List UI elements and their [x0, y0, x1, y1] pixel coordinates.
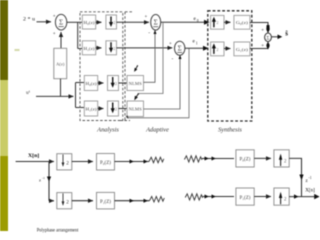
wire D2 to P1: [72, 200, 93, 202]
bullet dash: [15, 49, 20, 51]
wire NLMS1 out to sum1: [144, 33, 156, 83]
wire row3 H to D2: [98, 82, 104, 84]
wire delay branch: [48, 162, 50, 201]
filter P0 left: [97, 154, 115, 171]
svg-text:Σ: Σ: [59, 18, 63, 26]
adapt arrow NLMS1: [134, 65, 138, 72]
wire row2 H to D2: [96, 47, 102, 49]
wire row4 to NLMS2: [119, 108, 128, 110]
svg-text:2: 2: [66, 161, 69, 167]
wire channel to P0 right: [202, 158, 234, 160]
svg-text:2: 2: [113, 46, 115, 51]
wire U2 to G1: [224, 48, 231, 50]
wire branch to D2 row2: [49, 200, 54, 202]
op sum2 circle: [175, 41, 185, 55]
channel squiggle left row1: [149, 157, 164, 163]
downsample D2 row3: [108, 76, 119, 91]
svg-text:+: +: [145, 15, 148, 20]
svg-text:-1: -1: [42, 176, 45, 180]
wire e0 feedback: [138, 23, 164, 94]
wire U2 row1 down: [289, 158, 301, 196]
sidebar dark olive segment: [0, 0, 8, 80]
svg-text:2: 2: [66, 199, 69, 205]
wire row3 to NLMS1: [119, 82, 128, 84]
adaptive filter NLMS2: [127, 101, 144, 117]
wire row2 to sum2: [117, 47, 173, 49]
svg-text:P₁(Z): P₁(Z): [240, 196, 251, 201]
wire A(z) to sum A: [60, 32, 62, 48]
wire G1 to sum3: [250, 47, 268, 49]
wire P0 to U2 right: [254, 157, 271, 159]
op sum3 circle: [265, 33, 272, 42]
wire row4 H to D2: [98, 108, 104, 110]
filter P0 right: [236, 150, 254, 167]
channel squiggle right row2: [185, 194, 203, 200]
svg-text:2: 2: [113, 20, 115, 25]
svg-text:X[n]: X[n]: [28, 153, 39, 159]
adapt arrow NLMS2: [134, 93, 139, 100]
svg-text:2: 2: [216, 20, 218, 25]
svg-text:H₀(z): H₀(z): [84, 20, 96, 25]
svg-text:2: 2: [115, 107, 117, 112]
svg-text:-1: -1: [309, 176, 312, 180]
svg-text:P₁(Z): P₁(Z): [100, 200, 111, 205]
svg-text:1: 1: [196, 41, 198, 45]
svg-text:u¹: u¹: [26, 90, 31, 96]
wire bottom input: [36, 95, 74, 97]
synthesis dashed box: [208, 11, 252, 121]
svg-text:+: +: [53, 15, 56, 20]
wire split upper: [77, 22, 79, 48]
downsample D2 row2: [106, 41, 117, 55]
svg-text:Polyphase arrangement: Polyphase arrangement: [37, 228, 79, 234]
adaptive filter NLMS1: [127, 76, 144, 91]
wire channel to P1 right: [203, 196, 234, 198]
svg-text:H₁(z): H₁(z): [86, 107, 98, 112]
svg-text:0: 0: [197, 19, 199, 23]
filter P1 right: [236, 188, 254, 205]
upsample U2 row2: [211, 42, 224, 56]
svg-text:Adaptive: Adaptive: [145, 127, 169, 134]
adaptive dashed left edge: [124, 12, 126, 121]
svg-text:G₀(z): G₀(z): [236, 20, 249, 25]
svg-text:Synthesis: Synthesis: [218, 127, 242, 134]
filter H1 row4: [84, 101, 97, 116]
svg-text:H₀(z): H₀(z): [86, 81, 98, 86]
svg-text:2: 2: [216, 47, 218, 52]
channel squiggle right row1: [184, 156, 202, 162]
wire row1 to sum1: [117, 21, 150, 23]
svg-text:z: z: [39, 178, 41, 183]
wire P1 to U2 right: [254, 196, 271, 198]
svg-text:+: +: [261, 27, 264, 33]
svg-text:2 * u: 2 * u: [23, 17, 35, 23]
filter H1 row2: [82, 41, 95, 55]
downsample D2 poly row2: [57, 193, 72, 209]
wire U2 to G0: [224, 21, 231, 23]
wire e0 out: [161, 21, 205, 23]
sidebar light green segment: [0, 80, 8, 156]
svg-text:Analysis: Analysis: [96, 127, 119, 134]
wire NLMS2 out to sum2: [144, 58, 181, 110]
filter H0 row1: [82, 15, 95, 29]
svg-text:ŝ: ŝ: [285, 29, 288, 37]
svg-text:NLMS: NLMS: [129, 82, 142, 86]
wire sum A to analysis: [67, 21, 83, 23]
filter A(z): [54, 48, 67, 78]
wire e1 out: [185, 47, 204, 49]
svg-text:H₁(z): H₁(z): [84, 46, 96, 51]
svg-text:2: 2: [115, 81, 117, 86]
svg-text:X[n]: X[n]: [305, 189, 315, 194]
svg-text:-: -: [172, 56, 174, 62]
upsample U2 right row1: [274, 150, 289, 167]
filter G0: [234, 15, 250, 29]
channel squiggle left row2: [150, 196, 165, 202]
svg-text:A(z): A(z): [56, 62, 65, 67]
svg-text:P₀(Z): P₀(Z): [100, 161, 111, 166]
svg-text:G₁(z): G₁(z): [236, 47, 249, 52]
wire sum3 out: [271, 36, 277, 38]
wire row1 H to D2: [96, 21, 102, 23]
svg-text:NLMS: NLMS: [129, 108, 142, 112]
svg-text:Σ: Σ: [178, 44, 182, 52]
svg-text:Σ: Σ: [267, 36, 270, 41]
wire X input: [16, 161, 54, 163]
filter G1: [234, 42, 250, 56]
wire bottom input to A(z): [60, 79, 62, 97]
wire split lower: [75, 83, 77, 108]
downsample D2 row4: [108, 101, 119, 116]
wire P0 to channel: [115, 161, 150, 163]
svg-text:-: -: [148, 30, 150, 36]
downsample D2 poly row1: [57, 154, 72, 170]
wire e1 feedback: [127, 49, 190, 118]
downsample D2 row1: [106, 15, 117, 29]
wire P1 to channel: [115, 200, 150, 202]
filter H0 row3: [84, 76, 97, 91]
filter P1 left: [97, 192, 115, 209]
op sum A circle: [55, 14, 66, 30]
analysis dashed box: [80, 12, 123, 121]
wire U2 row2 to output: [289, 196, 317, 198]
wire G0 to sum3: [250, 23, 268, 26]
op sum1 circle: [151, 14, 161, 30]
svg-text:+: +: [169, 42, 172, 47]
svg-text:+: +: [53, 32, 56, 37]
upsample U2 right row2: [274, 188, 289, 205]
upsample U2 row1: [211, 15, 224, 29]
svg-text:Σ: Σ: [154, 19, 158, 27]
svg-text:P₀(Z): P₀(Z): [240, 158, 251, 163]
sidebar medium olive segment: [0, 156, 8, 231]
wire input to sum A: [37, 21, 52, 23]
wire D2 to P0: [72, 161, 93, 163]
